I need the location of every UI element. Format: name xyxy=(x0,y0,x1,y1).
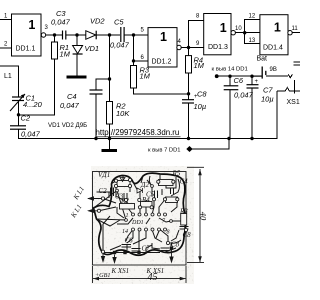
wire battery right to jack xyxy=(266,74,292,78)
svg-text:DD1.1: DD1.1 xyxy=(16,46,36,53)
svg-text:R5: R5 xyxy=(172,170,181,178)
op-amp U2: gate DD1.2 xyxy=(141,28,182,68)
svg-text:9В: 9В xyxy=(270,67,277,73)
wire C4 branch xyxy=(96,79,110,90)
resistor R3pcb xyxy=(181,214,187,226)
svg-text:C2: C2 xyxy=(21,114,31,123)
node C (R2/C4 top) xyxy=(108,33,111,36)
resistor R1 xyxy=(52,42,71,59)
svg-text:C6: C6 xyxy=(125,237,134,245)
capacitor C2 xyxy=(10,126,26,129)
diode VD2pcb xyxy=(137,188,143,193)
capacitor C7pcb xyxy=(132,248,141,250)
resistor R2 xyxy=(107,102,131,125)
node B (VD1 top) xyxy=(75,33,78,36)
node pcb pads xyxy=(97,178,187,253)
capacitor C8pcb xyxy=(180,226,189,228)
capacitor C4pcb xyxy=(170,189,172,195)
wire DD1.2 out to R4 node xyxy=(181,47,204,49)
svg-text:C4: C4 xyxy=(67,92,77,101)
svg-text:1: 1 xyxy=(160,30,167,44)
node R (C7 bus) xyxy=(250,137,253,140)
wire main output bus y35 xyxy=(46,34,63,36)
ground xyxy=(67,76,87,79)
svg-text:0,047: 0,047 xyxy=(110,41,130,50)
svg-text:к выв 7 DD1: к выв 7 DD1 xyxy=(148,148,181,154)
svg-text:Д2: Д2 xyxy=(140,181,149,189)
svg-text:R4: R4 xyxy=(141,196,150,204)
svg-text:12: 12 xyxy=(249,14,256,20)
wire C6 bottom xyxy=(229,90,231,139)
svg-text:10K: 10K xyxy=(116,109,130,118)
capacitor C3 xyxy=(63,31,66,40)
node M (C1/C2) xyxy=(17,113,20,116)
svg-text:R2: R2 xyxy=(120,197,129,205)
svg-text:40: 40 xyxy=(199,212,209,221)
svg-text:C8: C8 xyxy=(197,90,207,99)
node E (pin6) xyxy=(132,59,135,62)
wire pcb trace mid xyxy=(116,186,123,200)
svg-text:1: 1 xyxy=(274,21,281,35)
resistor R5pcb xyxy=(159,180,174,186)
svg-text:К XS1: К XS1 xyxy=(111,267,130,275)
wire pcb trace left leads xyxy=(97,191,111,193)
wire R3 bottom to node xyxy=(134,88,189,94)
svg-text:L1: L1 xyxy=(4,73,12,80)
wire C7 bottom xyxy=(251,88,253,139)
node F (C4 tap) xyxy=(108,77,111,80)
wire C7 top xyxy=(251,76,253,85)
capacitor C6pcb xyxy=(122,244,132,246)
op-amp U3: gate DD1.3 xyxy=(196,14,242,55)
svg-text:VD2: VD2 xyxy=(90,17,105,26)
resistor R4pcb xyxy=(141,202,153,208)
svg-text:10µ: 10µ xyxy=(261,95,274,104)
svg-text:R3: R3 xyxy=(179,208,188,216)
svg-text:14: 14 xyxy=(122,228,128,235)
svg-text:1: 1 xyxy=(126,213,129,219)
wire pcb trace top lobe xyxy=(149,176,152,196)
jack lower contact xyxy=(277,88,300,92)
svg-text:+GB1: +GB1 xyxy=(95,272,111,279)
node O (R2 bus) xyxy=(108,137,111,140)
capacitor C4 xyxy=(90,90,103,94)
svg-text:C6: C6 xyxy=(234,76,244,85)
ground stub xyxy=(109,139,111,150)
BF marks xyxy=(294,61,301,63)
node dim line 45 xyxy=(93,278,186,280)
node P (C8 bus) xyxy=(187,137,190,140)
capacitor C7 xyxy=(247,85,259,88)
node A (R1 top) xyxy=(53,33,56,36)
node D (C5-DD1.2) xyxy=(132,33,135,36)
svg-text:DD1.3: DD1.3 xyxy=(208,44,228,51)
node G (R4 top) xyxy=(187,46,190,49)
node H (R4 bottom) xyxy=(187,92,190,95)
node pcb arrows left K L1 xyxy=(88,197,102,200)
node pcb arrows bottom xyxy=(101,254,104,262)
svg-text:VD1: VD1 xyxy=(85,44,100,53)
wire L1 corner xyxy=(0,66,19,97)
resistor R2pcb xyxy=(120,204,135,210)
svg-text:XS1: XS1 xyxy=(287,99,300,106)
capacitor C5 xyxy=(121,27,124,42)
node J (rail left end) xyxy=(215,74,219,78)
diode VD1 xyxy=(73,44,99,54)
svg-text:к выв 14 DD1: к выв 14 DD1 xyxy=(212,67,248,73)
wire node3 down xyxy=(109,35,111,102)
svg-text:VД1: VД1 xyxy=(98,171,110,179)
node dim line 40 xyxy=(199,169,201,262)
wire C2 bottom to bus xyxy=(19,91,278,139)
node N (C4 bus) xyxy=(94,137,97,140)
svg-text:4...20: 4...20 xyxy=(23,100,43,109)
svg-text:C2: C2 xyxy=(99,187,108,195)
op-amp U4: gate DD1.4 xyxy=(249,14,299,63)
resistor RXpcb xyxy=(166,197,178,203)
svg-text:1M: 1M xyxy=(140,72,151,81)
resistor R4 xyxy=(186,56,205,74)
node dim arrows xyxy=(198,169,202,175)
svg-text:0,047: 0,047 xyxy=(21,130,41,139)
svg-text:11: 11 xyxy=(292,26,299,32)
svg-text:1M: 1M xyxy=(194,61,205,70)
svg-text:К XS1: К XS1 xyxy=(146,267,165,275)
svg-text:13: 13 xyxy=(249,38,256,44)
node Q (C6 bus) xyxy=(227,137,230,140)
svg-text:DD1.4: DD1.4 xyxy=(263,45,283,52)
svg-text:0,047: 0,047 xyxy=(51,18,71,27)
svg-text:VD1 VD2 Д9Б: VD1 VD2 Д9Б xyxy=(48,122,87,129)
wire pcb top traces xyxy=(111,181,116,184)
wire 14DD1 rail xyxy=(217,75,262,77)
svg-text:DD1: DD1 xyxy=(131,220,144,226)
node S (k7 diamond) xyxy=(186,146,192,152)
node I (DD1.3 out) xyxy=(243,31,246,34)
node dim ext bottom left xyxy=(92,266,94,283)
wire C6 top xyxy=(229,76,231,86)
wire DD1.3 out xyxy=(236,32,260,34)
svg-text:http://299792458.3dn.ru: http://299792458.3dn.ru xyxy=(96,128,180,137)
capacitor C8pcb2 xyxy=(161,247,170,249)
svg-text:C7: C7 xyxy=(263,86,273,95)
resistor R1pcb xyxy=(117,181,130,187)
diode VD1pcb xyxy=(120,178,125,182)
resistor R3 xyxy=(131,66,151,89)
wire pcb wedge xyxy=(94,191,118,209)
op-amp U1: gate DD1.1 xyxy=(4,14,49,57)
svg-text:C4: C4 xyxy=(180,178,189,186)
wire k7DD1 stub xyxy=(192,139,229,150)
svg-text:10: 10 xyxy=(235,26,242,32)
capacitor C6 xyxy=(224,86,239,90)
transistor-style boxes: components xyxy=(117,180,187,226)
capacitor C3pcb xyxy=(123,193,125,201)
svg-text:C8: C8 xyxy=(183,231,192,239)
wire C8 bottom xyxy=(188,103,190,139)
capacitor C8 xyxy=(182,100,194,103)
svg-text:1: 1 xyxy=(28,18,35,32)
node blob outline xyxy=(94,173,186,255)
capacitor C5pcb xyxy=(154,191,156,199)
wire DD1.4 pins 12 13 xyxy=(245,20,260,33)
capacitor C2pcb xyxy=(110,188,112,197)
node L (C7 top) xyxy=(250,75,253,78)
svg-text:C8: C8 xyxy=(171,241,180,249)
wire VD1 branch xyxy=(76,35,78,46)
svg-text:DD1.2: DD1.2 xyxy=(152,59,172,66)
wire R4 node up to pin8 xyxy=(189,21,204,48)
ground bar bottom xyxy=(102,149,118,152)
node pcb board outline xyxy=(93,172,187,266)
svg-text:0,047: 0,047 xyxy=(60,101,80,110)
jack plug bar xyxy=(294,80,296,94)
svg-text:+: + xyxy=(255,79,259,85)
node dim ext right bottom xyxy=(187,262,204,264)
node dim ext right top xyxy=(187,166,204,168)
wire pin2 DD1.1 xyxy=(0,47,12,49)
battery Bat 9V xyxy=(251,67,277,79)
wire R4 xyxy=(188,48,190,56)
wire R1 branch xyxy=(54,35,56,42)
wire DD1.4 out xyxy=(292,32,300,34)
node pcb square pads xyxy=(113,246,173,254)
svg-text:C7: C7 xyxy=(142,245,151,253)
diode VD2 xyxy=(86,17,106,40)
node pcb paper xyxy=(91,166,194,284)
node K (C6 top) xyxy=(228,75,231,78)
wire pin1 DD1.1 xyxy=(0,19,12,21)
svg-text:10µ: 10µ xyxy=(194,102,207,111)
wire DD1.2 pin6 + R3 xyxy=(134,35,149,61)
svg-text:1M: 1M xyxy=(60,50,71,59)
node dim ext bottom right xyxy=(185,266,187,283)
wire R2 bottom xyxy=(109,124,111,139)
svg-text:1: 1 xyxy=(220,21,227,35)
svg-text:8: 8 xyxy=(167,230,170,236)
capacitor C1 trimmer xyxy=(12,97,24,101)
svg-text:C5: C5 xyxy=(114,18,124,27)
wire C1 to node xyxy=(18,101,20,126)
svg-text:Bat: Bat xyxy=(257,56,268,63)
svg-text:0,047: 0,047 xyxy=(234,91,254,100)
